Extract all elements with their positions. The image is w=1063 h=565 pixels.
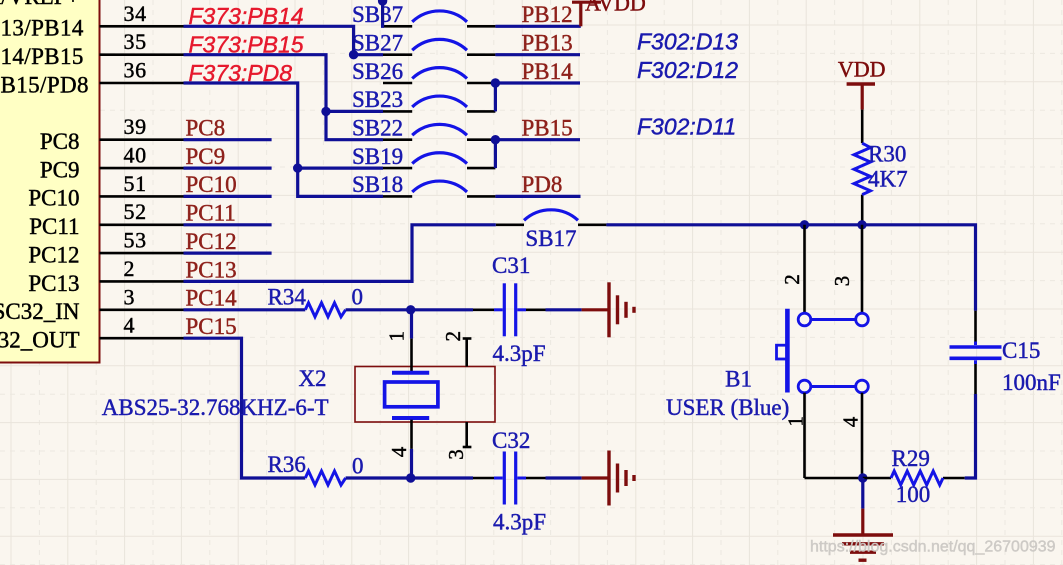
svg-text:PC13: PC13 [28, 271, 79, 296]
svg-text:B15/PD8: B15/PD8 [1, 72, 89, 97]
resistor R29 100 [863, 446, 965, 507]
svg-text:SB22: SB22 [352, 116, 403, 141]
crystal X2 ABS25 [355, 310, 495, 478]
wire pin35 to SB23/SB22 [184, 55, 384, 140]
wire R29 to C15 bottom [965, 394, 976, 478]
wire SB17 to button/C15 rail [606, 225, 975, 311]
svg-text:34: 34 [124, 1, 147, 26]
svg-text:PC12: PC12 [186, 229, 237, 254]
svg-text:4.3pF: 4.3pF [493, 509, 546, 534]
svg-text:PC13: PC13 [186, 257, 237, 282]
button B1 pins bottom [784, 393, 863, 478]
pin 2 (PC13) [28, 256, 183, 296]
svg-text:https://blog.csdn.net/qq_26700: https://blog.csdn.net/qq_26700939 [810, 538, 1056, 555]
solder bridge SB27 [352, 31, 495, 56]
wire pin36 to SB19/SB18 [184, 83, 384, 196]
junction PB14 [491, 78, 500, 87]
wire PC14 to R34 [184, 308, 306, 311]
svg-text:R34: R34 [268, 284, 307, 309]
junction button pin3 / R30 [857, 220, 866, 229]
wire stub row 8 [184, 223, 272, 226]
svg-text:51: 51 [124, 171, 147, 196]
resistor R36 0 [268, 452, 364, 485]
junction SB19 left [293, 163, 302, 172]
wire PB13 [495, 53, 580, 56]
svg-text:PC8: PC8 [40, 129, 80, 154]
svg-text:PB13: PB13 [522, 31, 573, 56]
svg-text:1: 1 [384, 331, 408, 342]
resistor R30 4K7 [854, 110, 908, 225]
svg-text:R30: R30 [868, 142, 906, 167]
svg-text:100nF: 100nF [1002, 370, 1061, 395]
svg-text:PC14: PC14 [186, 286, 238, 311]
svg-text:52: 52 [124, 199, 147, 224]
svg-text:F302:D13: F302:D13 [637, 29, 738, 55]
svg-text:13/PB14: 13/PB14 [1, 16, 84, 41]
svg-text:3: 3 [830, 276, 854, 287]
svg-text:PC9: PC9 [40, 157, 80, 182]
capacitor C31 4.3pF [473, 253, 546, 366]
svg-text:PC15: PC15 [186, 314, 237, 339]
capacitor C15 100nF [950, 311, 1061, 395]
svg-text:4: 4 [387, 446, 411, 457]
MCU symbol (yellow body, partially off-canvas) [0, 0, 100, 363]
button B1 actuator [777, 309, 788, 393]
svg-text:PB15: PB15 [522, 116, 573, 141]
svg-text:VDD: VDD [838, 57, 886, 82]
wire stub row 5 [184, 138, 272, 141]
solder bridge SB37 [352, 2, 495, 27]
wire stub row 9 [184, 252, 272, 255]
resistor R34 0 [268, 284, 364, 317]
pin 52 (PC11) [29, 199, 183, 239]
svg-text:0: 0 [352, 284, 364, 309]
svg-text:SB26: SB26 [352, 59, 403, 84]
pin 40 (PC9) [40, 143, 184, 183]
svg-text:R29: R29 [892, 446, 930, 471]
svg-text:PC11: PC11 [29, 214, 79, 239]
solder bridge SB19 [352, 144, 495, 169]
pin 35 (14/PB15) [1, 29, 184, 69]
svg-text:0: 0 [352, 453, 364, 478]
svg-text:PB14: PB14 [522, 59, 574, 84]
junction PB15 [491, 135, 500, 144]
wire C32 to ground [546, 476, 582, 479]
wire pin34 jog to SB27 [184, 26, 384, 54]
svg-text:SB23: SB23 [352, 87, 403, 112]
pin 53 (PC12) [28, 228, 183, 268]
button B1 contacts [798, 313, 868, 393]
svg-text:2: 2 [124, 256, 136, 281]
wire SB37 to AVDD [495, 25, 580, 28]
wire PB15 + drop to SB19 [495, 138, 580, 141]
pin 36 (B15/PD8) [1, 58, 184, 98]
svg-text:PC10: PC10 [28, 186, 79, 211]
wire top entry to SB37 [383, 0, 384, 26]
pin 4 (OSC32_OUT) [0, 313, 184, 353]
pin 3 (OSC32_IN) [0, 284, 184, 324]
junction X2 pin1 node [406, 305, 415, 314]
wire PC15 down/around to R36 [184, 338, 306, 478]
svg-text:SB18: SB18 [352, 172, 403, 197]
svg-text:OSC32_IN: OSC32_IN [0, 299, 80, 324]
wire C31 to ground [546, 308, 582, 311]
svg-text:2: 2 [441, 331, 465, 342]
wire R34 to C31/X2 [346, 308, 473, 311]
svg-text:4: 4 [839, 416, 863, 427]
svg-text:40: 40 [124, 143, 147, 168]
svg-text:USER (Blue): USER (Blue) [666, 395, 789, 420]
svg-text:39: 39 [124, 114, 147, 139]
pin 51 (PC10) [28, 171, 183, 211]
ground symbol (C32) [582, 451, 634, 506]
button B1 pins top [780, 225, 862, 313]
svg-text:53: 53 [124, 228, 147, 253]
svg-text:C31: C31 [492, 253, 530, 278]
ground symbol (C31) [582, 282, 634, 337]
svg-text:PC11: PC11 [186, 201, 236, 226]
svg-text:PC12: PC12 [28, 242, 79, 267]
svg-text:AVDD: AVDD [585, 0, 646, 16]
svg-text:2: 2 [780, 274, 804, 285]
solder bridge SB23 [352, 87, 495, 112]
svg-text:PC8: PC8 [186, 116, 226, 141]
svg-text:35: 35 [124, 29, 147, 54]
svg-text:36: 36 [124, 58, 147, 83]
svg-text:SB37: SB37 [352, 2, 403, 27]
svg-text:SB17: SB17 [525, 226, 576, 251]
svg-text:SB19: SB19 [352, 144, 403, 169]
svg-text:VDDA/VREF+: VDDA/VREF+ [0, 0, 80, 9]
svg-text:14/PB15: 14/PB15 [1, 44, 84, 69]
svg-text:3: 3 [444, 449, 468, 460]
junction button pin2 [800, 220, 809, 229]
capacitor C32 4.3pF [473, 428, 546, 535]
junction X2 pin4 node [406, 473, 415, 482]
svg-text:3: 3 [124, 284, 136, 309]
svg-text:4K7: 4K7 [868, 166, 908, 191]
junction at SB27 left [349, 50, 358, 59]
svg-text:F302:D12: F302:D12 [637, 57, 738, 83]
svg-text:PC10: PC10 [186, 172, 237, 197]
svg-text:PC9: PC9 [186, 144, 226, 169]
svg-text:X2: X2 [298, 366, 326, 391]
svg-text:PB12: PB12 [522, 2, 573, 27]
svg-text:C15: C15 [1002, 338, 1040, 363]
svg-text:4: 4 [124, 313, 136, 338]
solder bridge SB22 [352, 116, 495, 141]
wire R36 to C32/X2 [346, 476, 473, 479]
wire PB14 + drop to SB23 [495, 81, 580, 84]
solder bridge SB17 [496, 210, 607, 251]
wire stub row 6 [184, 167, 272, 170]
wire PD8 [495, 195, 580, 198]
svg-text:F302:D11: F302:D11 [637, 114, 736, 140]
pin 34 (13/PB14) [1, 1, 184, 41]
svg-text:SB27: SB27 [352, 31, 403, 56]
junction top edge [378, 0, 387, 6]
svg-text:R36: R36 [268, 452, 306, 477]
junction R29 left [858, 473, 867, 482]
svg-text:4.3pF: 4.3pF [493, 341, 546, 366]
ground symbol (bottom) [833, 509, 893, 561]
solder bridge SB26 [352, 59, 495, 84]
wire button to ground [861, 478, 864, 509]
pin 39 (PC8) [40, 114, 184, 154]
power port AVDD [572, 0, 646, 26]
junction SB23 left [321, 107, 330, 116]
svg-text:C32: C32 [492, 428, 530, 453]
wire stub row 7 [184, 195, 272, 198]
svg-text:OSC32_OUT: OSC32_OUT [0, 328, 80, 353]
power port VDD [838, 57, 886, 110]
svg-text:ABS25-32.768KHZ-6-T: ABS25-32.768KHZ-6-T [102, 395, 329, 420]
svg-text:100: 100 [896, 482, 931, 507]
pin _VREF+ (cut at top edge) [0, 0, 184, 9]
wire PC13 to SB17 [184, 225, 496, 282]
svg-text:PD8: PD8 [522, 172, 563, 197]
solder bridge SB18 [352, 172, 495, 197]
svg-text:B1: B1 [725, 366, 752, 391]
